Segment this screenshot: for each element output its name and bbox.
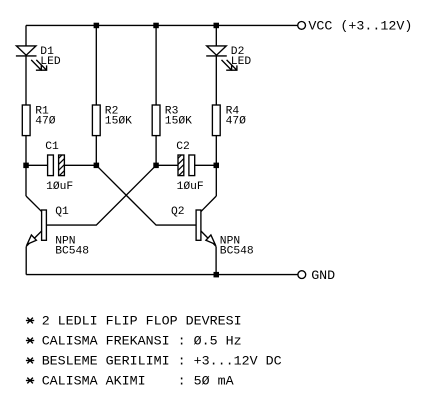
svg-text:Q2: Q2 (171, 206, 185, 218)
junction C2 left / R3 bottom (153, 163, 159, 169)
wire C1 node to Q2 base (cross coupling) (96, 165, 196, 225)
terminal VCC (298, 22, 306, 30)
svg-text:BESLEME GERILIMI : +3...12V DC: BESLEME GERILIMI : +3...12V DC (42, 354, 282, 369)
wire R1 to Q1 collector node (25, 136, 27, 196)
wire VCC to D2 anode (215, 25, 217, 46)
svg-text:15ØK: 15ØK (105, 116, 132, 128)
wire D2 cathode to R4 (215, 56, 217, 105)
junction C1 right / R2 bottom (94, 163, 100, 169)
note line 2 (26, 334, 242, 349)
wire rail to C1 (26, 164, 48, 166)
svg-text:2 LEDLI FLIP FLOP DEVRESI: 2 LEDLI FLIP FLOP DEVRESI (42, 314, 242, 329)
junction bottom rail / Q2 emitter (214, 272, 220, 278)
svg-text:47Ø: 47Ø (35, 116, 56, 128)
svg-text:LED: LED (231, 56, 252, 68)
wire VCC top rail (26, 24, 298, 26)
transistor Q1 (26, 196, 46, 275)
note line 4 (26, 374, 234, 389)
junction top rail / R3 (153, 23, 159, 29)
resistor R3 (152, 105, 160, 136)
note line 3 (26, 354, 282, 369)
svg-text:BC548: BC548 (220, 246, 254, 258)
wire C1 to R2 node (64, 164, 96, 166)
LED D2 (206, 46, 237, 70)
svg-text:VCC (+3..12V): VCC (+3..12V) (308, 20, 412, 35)
junction C2 right / rail (214, 163, 220, 169)
resistor R1 (22, 105, 30, 136)
svg-text:CALISMA FREKANSI : Ø.5 Hz: CALISMA FREKANSI : Ø.5 Hz (42, 334, 242, 349)
svg-text:1ØuF: 1ØuF (177, 181, 204, 193)
svg-text:C2: C2 (176, 141, 190, 153)
wire D1 cathode to R1 (25, 56, 27, 105)
capacitor C2 (161, 155, 200, 176)
wire R3 to C2 node (155, 136, 157, 166)
wire VCC to R3 (155, 25, 157, 105)
svg-text:GND: GND (311, 269, 335, 284)
svg-text:Q1: Q1 (55, 206, 69, 218)
junction C1 left / rail (23, 163, 29, 169)
terminal GND (298, 271, 306, 279)
capacitor C1 (41, 155, 80, 176)
resistor R2 (92, 105, 100, 136)
wire R4 to Q2 collector node (215, 136, 217, 196)
LED D1 (16, 46, 47, 70)
svg-text:BC548: BC548 (55, 246, 89, 258)
transistor Q2 (196, 196, 216, 275)
svg-text:15ØK: 15ØK (165, 116, 192, 128)
wire GND bottom rail (26, 274, 298, 276)
svg-text:CALISMA AKIMI : 5Ø mA: CALISMA AKIMI : 5Ø mA (42, 374, 234, 389)
svg-text:47Ø: 47Ø (226, 116, 247, 128)
svg-text:LED: LED (40, 56, 61, 68)
junction top rail / R2 (94, 23, 100, 29)
svg-text:C1: C1 (45, 141, 59, 153)
resistor R4 (212, 105, 220, 136)
wire R2 to C1 node (95, 136, 97, 166)
wire R3 node to C2 (156, 164, 178, 166)
wire C2 node to Q1 base (cross coupling) (46, 165, 156, 225)
note line 1 (26, 314, 242, 329)
svg-text:1ØuF: 1ØuF (46, 181, 73, 193)
junction top rail / D2 (214, 23, 220, 29)
wire VCC to R2 (95, 25, 97, 105)
wire C2 to rail (195, 164, 217, 166)
wire VCC to D1 anode (25, 25, 27, 46)
